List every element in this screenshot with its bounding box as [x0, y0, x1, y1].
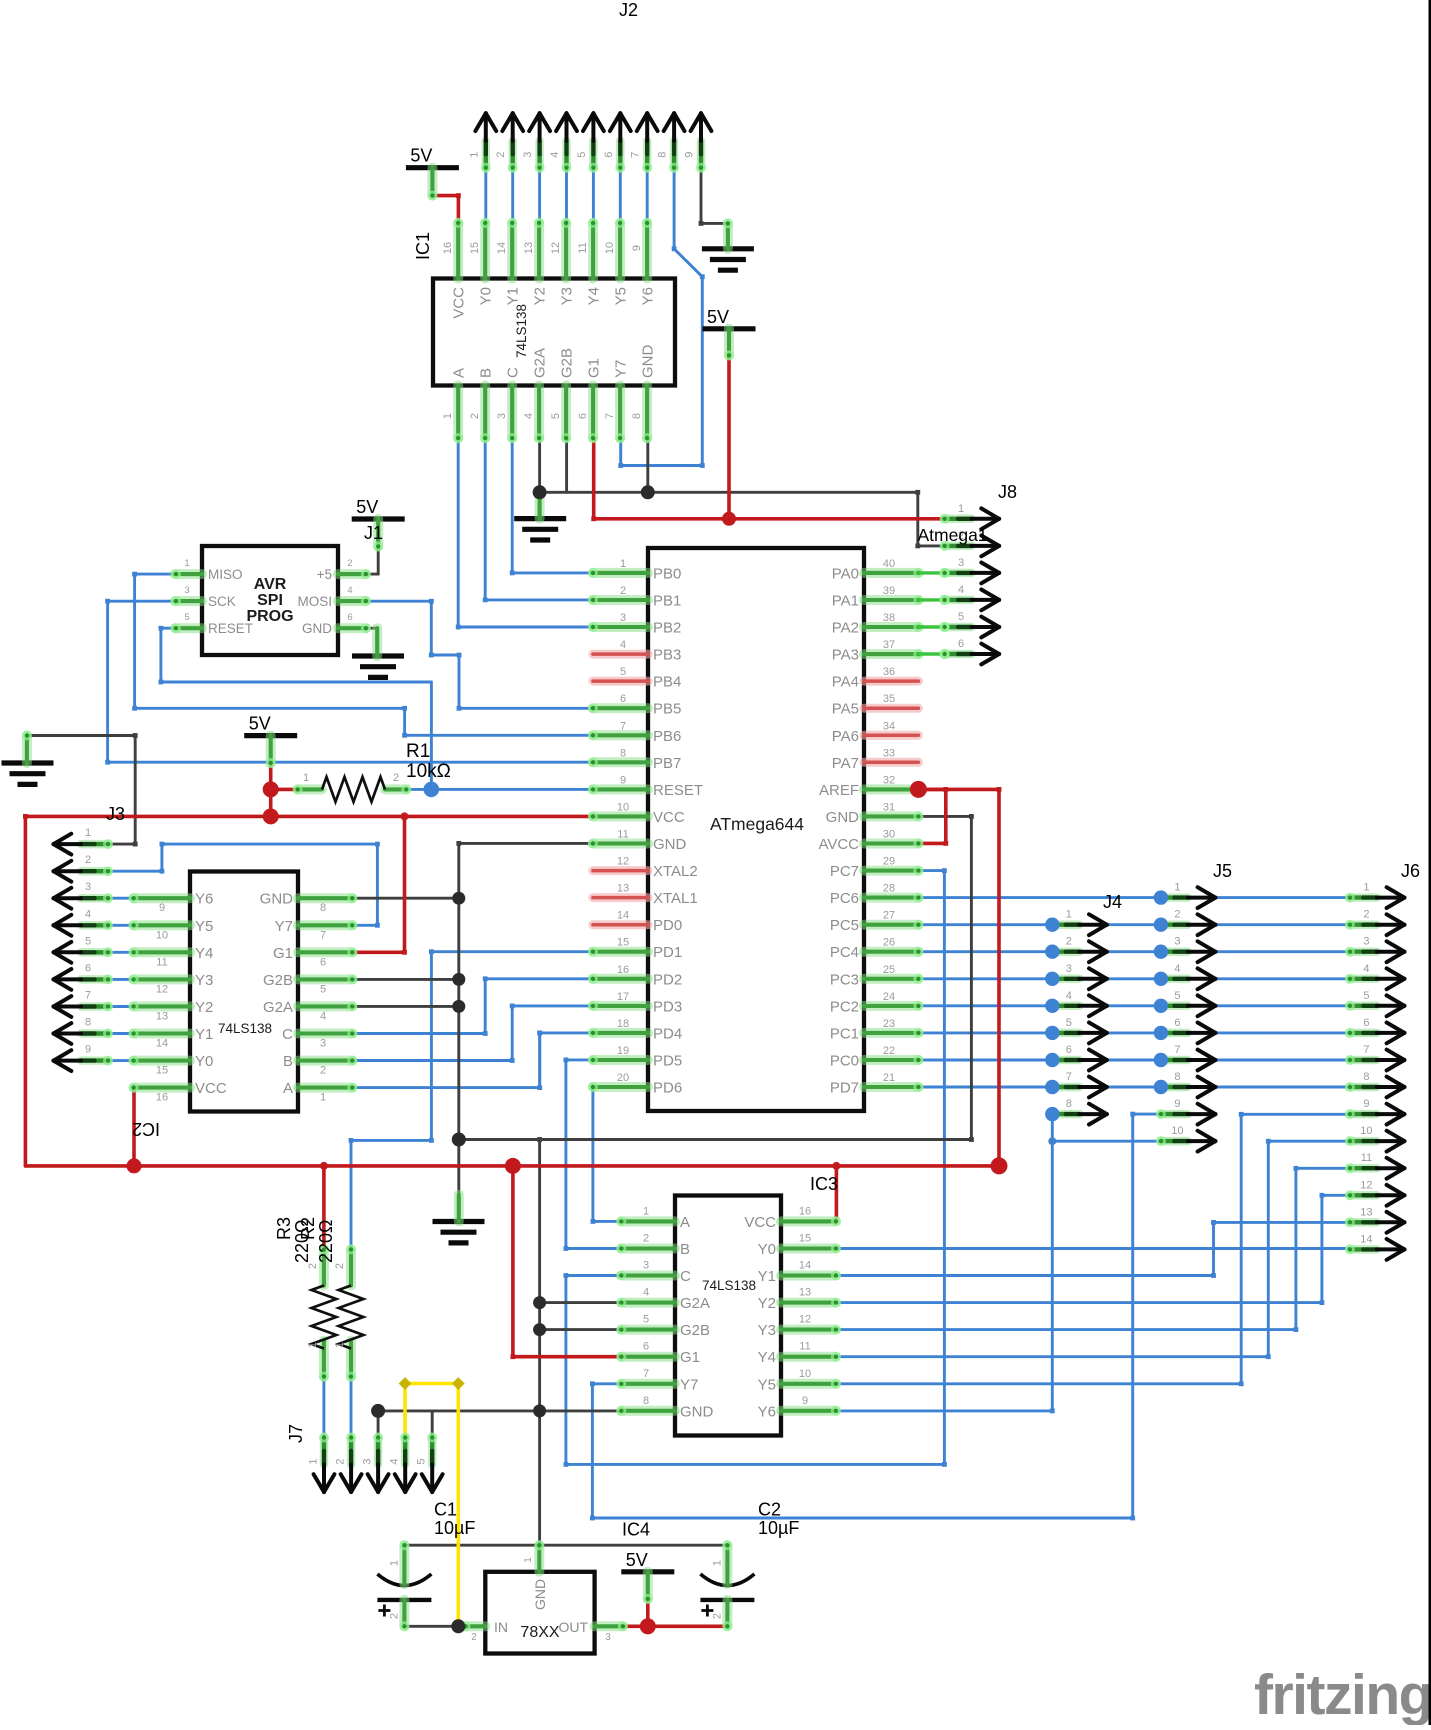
svg-text:3: 3 [1363, 936, 1369, 948]
svg-text:19: 19 [617, 1045, 629, 1057]
svg-text:Y0: Y0 [758, 1241, 776, 1258]
svg-text:6: 6 [958, 638, 964, 650]
svg-text:10: 10 [799, 1368, 811, 1380]
svg-text:33: 33 [883, 747, 895, 759]
svg-text:6: 6 [85, 962, 91, 974]
svg-text:G2B: G2B [680, 1322, 710, 1339]
svg-text:Y7: Y7 [275, 918, 293, 935]
svg-text:13: 13 [523, 242, 535, 254]
svg-text:VCC: VCC [653, 809, 685, 826]
svg-text:+5: +5 [317, 567, 332, 582]
svg-text:2: 2 [347, 558, 352, 569]
svg-text:Y5: Y5 [613, 287, 630, 305]
svg-text:1: 1 [307, 1342, 319, 1348]
svg-text:11: 11 [617, 829, 628, 841]
svg-text:G2A: G2A [263, 999, 293, 1016]
svg-text:12: 12 [1360, 1179, 1372, 1191]
svg-text:PROG: PROG [246, 608, 293, 625]
svg-text:13: 13 [156, 1010, 168, 1022]
svg-text:5: 5 [620, 666, 626, 678]
svg-text:11: 11 [156, 956, 167, 968]
svg-text:6: 6 [1363, 1017, 1369, 1029]
svg-text:1: 1 [523, 1557, 534, 1563]
svg-text:12: 12 [799, 1314, 811, 1326]
svg-text:3: 3 [620, 612, 626, 624]
svg-text:14: 14 [156, 1038, 168, 1050]
svg-text:5: 5 [1174, 990, 1180, 1002]
svg-text:Y2: Y2 [758, 1295, 776, 1312]
svg-text:10: 10 [1171, 1125, 1183, 1137]
svg-text:2: 2 [471, 1632, 477, 1643]
svg-text:2: 2 [1066, 936, 1072, 948]
svg-text:PD2: PD2 [653, 971, 682, 988]
svg-text:PC2: PC2 [830, 998, 859, 1015]
svg-text:9: 9 [159, 902, 165, 914]
svg-text:Y6: Y6 [195, 891, 213, 908]
svg-text:2: 2 [388, 1613, 400, 1619]
svg-text:6: 6 [577, 413, 589, 419]
svg-text:1: 1 [1174, 882, 1180, 894]
svg-text:7: 7 [620, 720, 626, 732]
svg-text:7: 7 [630, 152, 642, 158]
svg-text:5: 5 [958, 611, 964, 623]
svg-text:R3: R3 [274, 1217, 294, 1240]
svg-text:G1: G1 [273, 945, 293, 962]
svg-text:PB2: PB2 [653, 620, 681, 637]
svg-text:5: 5 [576, 152, 588, 158]
svg-text:16: 16 [799, 1205, 811, 1217]
svg-text:1: 1 [620, 558, 626, 570]
svg-text:PA0: PA0 [832, 565, 859, 582]
svg-text:VCC: VCC [195, 1080, 227, 1097]
svg-text:PD1: PD1 [653, 944, 682, 961]
svg-text:B: B [680, 1241, 690, 1258]
svg-text:7: 7 [1174, 1044, 1180, 1056]
svg-text:35: 35 [883, 693, 895, 705]
svg-text:Y5: Y5 [758, 1376, 776, 1393]
svg-text:Y6: Y6 [640, 287, 657, 305]
svg-text:MOSI: MOSI [297, 594, 332, 609]
svg-text:G1: G1 [680, 1349, 700, 1366]
svg-text:78XX: 78XX [520, 1624, 559, 1641]
svg-text:18: 18 [617, 1018, 629, 1030]
svg-text:13: 13 [617, 883, 629, 895]
svg-text:3: 3 [1174, 936, 1180, 948]
svg-text:25: 25 [883, 964, 895, 976]
svg-text:J5: J5 [1213, 861, 1232, 881]
svg-text:8: 8 [620, 747, 626, 759]
svg-text:PA3: PA3 [832, 647, 859, 664]
svg-text:IC3: IC3 [810, 1174, 838, 1194]
svg-text:9: 9 [684, 152, 696, 158]
svg-text:12: 12 [617, 856, 629, 868]
svg-text:PD6: PD6 [653, 1080, 682, 1097]
svg-text:29: 29 [883, 856, 895, 868]
svg-text:5: 5 [1363, 990, 1369, 1002]
svg-text:5: 5 [320, 983, 326, 995]
svg-text:PC4: PC4 [830, 944, 859, 961]
svg-text:1: 1 [468, 152, 480, 158]
svg-text:C2: C2 [758, 1500, 781, 1520]
svg-text:15: 15 [156, 1065, 168, 1077]
svg-text:RESET: RESET [653, 782, 703, 799]
svg-text:B: B [283, 1053, 293, 1070]
svg-text:J3: J3 [106, 804, 125, 824]
svg-text:2: 2 [643, 1233, 649, 1245]
svg-text:10: 10 [617, 801, 629, 813]
svg-text:3: 3 [1066, 963, 1072, 975]
svg-text:B: B [478, 368, 495, 378]
svg-text:21: 21 [883, 1072, 895, 1084]
svg-text:PB6: PB6 [653, 728, 681, 745]
svg-text:AREF: AREF [819, 782, 859, 799]
svg-text:PC6: PC6 [830, 890, 859, 907]
svg-text:3: 3 [320, 1038, 326, 1050]
svg-text:9: 9 [620, 774, 626, 786]
svg-text:Y4: Y4 [758, 1349, 776, 1366]
svg-text:5V: 5V [356, 497, 378, 517]
svg-text:2: 2 [620, 585, 626, 597]
svg-text:2: 2 [393, 772, 399, 784]
svg-text:Y4: Y4 [586, 287, 603, 305]
svg-text:1: 1 [1066, 909, 1072, 921]
svg-text:MISO: MISO [208, 567, 243, 582]
svg-text:2: 2 [1363, 909, 1369, 921]
svg-text:10: 10 [1360, 1125, 1372, 1137]
svg-text:3: 3 [362, 1458, 374, 1464]
svg-text:74LS138: 74LS138 [702, 1278, 756, 1293]
svg-text:5: 5 [416, 1458, 428, 1464]
svg-text:PA4: PA4 [832, 674, 859, 691]
svg-text:PB5: PB5 [653, 701, 681, 718]
svg-text:34: 34 [883, 720, 895, 732]
svg-text:G2A: G2A [532, 348, 549, 378]
svg-text:3: 3 [958, 557, 964, 569]
svg-text:6: 6 [347, 612, 352, 623]
svg-text:10µF: 10µF [434, 1518, 475, 1538]
svg-text:PD7: PD7 [830, 1080, 859, 1097]
svg-text:11: 11 [1361, 1152, 1372, 1164]
svg-text:10kΩ: 10kΩ [406, 761, 451, 782]
svg-text:Y2: Y2 [532, 287, 549, 305]
svg-text:9: 9 [631, 245, 643, 251]
svg-text:14: 14 [799, 1260, 811, 1272]
svg-text:26: 26 [883, 937, 895, 949]
svg-text:J6: J6 [1401, 861, 1420, 881]
svg-text:PA5: PA5 [832, 701, 859, 718]
svg-text:PA6: PA6 [832, 728, 859, 745]
svg-text:5V: 5V [707, 307, 729, 327]
svg-text:1: 1 [1363, 882, 1369, 894]
svg-text:2: 2 [1174, 909, 1180, 921]
svg-text:3: 3 [85, 881, 91, 893]
svg-text:4: 4 [320, 1010, 326, 1022]
svg-text:VCC: VCC [744, 1214, 776, 1231]
svg-text:40: 40 [883, 558, 895, 570]
svg-text:7: 7 [85, 990, 91, 1002]
svg-text:J8: J8 [998, 482, 1017, 502]
svg-text:Y7: Y7 [680, 1376, 698, 1393]
svg-text:6: 6 [1066, 1044, 1072, 1056]
svg-text:5V: 5V [249, 714, 271, 734]
svg-text:A: A [283, 1080, 293, 1097]
svg-text:10µF: 10µF [758, 1518, 799, 1538]
svg-text:4: 4 [1066, 990, 1072, 1002]
svg-text:8: 8 [320, 902, 326, 914]
svg-text:10: 10 [604, 242, 616, 254]
svg-text:PC7: PC7 [830, 863, 859, 880]
svg-text:A: A [680, 1214, 690, 1231]
svg-text:PD5: PD5 [653, 1053, 682, 1070]
svg-text:GND: GND [640, 345, 657, 379]
svg-text:IN: IN [494, 1619, 508, 1635]
svg-text:Y0: Y0 [478, 287, 495, 305]
svg-text:PC1: PC1 [830, 1025, 859, 1042]
svg-text:8: 8 [1174, 1071, 1180, 1083]
svg-text:Y7: Y7 [613, 360, 630, 378]
svg-text:16: 16 [156, 1092, 168, 1104]
svg-text:3: 3 [643, 1260, 649, 1272]
svg-text:1: 1 [388, 1560, 400, 1566]
svg-text:7: 7 [1363, 1044, 1369, 1056]
svg-text:10: 10 [156, 929, 168, 941]
svg-text:8: 8 [85, 1017, 91, 1029]
svg-text:4: 4 [643, 1287, 649, 1299]
svg-text:15: 15 [469, 242, 481, 254]
svg-text:9: 9 [802, 1395, 808, 1407]
svg-text:2: 2 [711, 1613, 723, 1619]
svg-text:C1: C1 [434, 1500, 457, 1520]
svg-text:17: 17 [617, 991, 629, 1003]
svg-text:PC3: PC3 [830, 971, 859, 988]
svg-text:GND: GND [532, 1579, 548, 1610]
svg-text:37: 37 [883, 639, 895, 651]
svg-text:12: 12 [156, 983, 168, 995]
svg-text:PB4: PB4 [653, 674, 681, 691]
svg-text:5: 5 [1066, 1017, 1072, 1029]
svg-text:11: 11 [577, 242, 589, 253]
svg-text:31: 31 [883, 801, 895, 813]
svg-text:fritzing: fritzing [1254, 1663, 1431, 1725]
svg-text:ATmega644: ATmega644 [710, 814, 804, 834]
svg-text:AVR: AVR [254, 576, 287, 593]
svg-text:5: 5 [184, 612, 189, 623]
svg-text:Y1: Y1 [758, 1268, 776, 1285]
svg-text:PA1: PA1 [832, 593, 859, 610]
svg-text:14: 14 [617, 910, 629, 922]
svg-text:22: 22 [883, 1045, 895, 1057]
svg-text:6: 6 [603, 152, 615, 158]
svg-text:8: 8 [1363, 1071, 1369, 1083]
svg-text:R2: R2 [298, 1217, 318, 1240]
svg-text:IC4: IC4 [622, 1520, 650, 1540]
svg-text:3: 3 [496, 413, 508, 419]
svg-text:Y1: Y1 [505, 287, 522, 305]
svg-text:1: 1 [643, 1205, 649, 1217]
svg-text:GND: GND [302, 621, 332, 636]
svg-text:Y2: Y2 [195, 999, 213, 1016]
svg-text:5: 5 [85, 935, 91, 947]
svg-text:8: 8 [657, 152, 669, 158]
svg-text:Atmega1: Atmega1 [918, 525, 988, 545]
svg-text:AVCC: AVCC [818, 836, 859, 853]
svg-text:11: 11 [799, 1341, 810, 1353]
svg-text:13: 13 [799, 1287, 811, 1299]
svg-text:PD3: PD3 [653, 998, 682, 1015]
svg-text:IC2: IC2 [132, 1119, 160, 1139]
svg-text:7: 7 [1066, 1071, 1072, 1083]
svg-text:7: 7 [320, 929, 326, 941]
svg-text:PD4: PD4 [653, 1025, 682, 1042]
svg-text:OUT: OUT [558, 1619, 588, 1635]
svg-text:28: 28 [883, 883, 895, 895]
svg-text:1: 1 [442, 413, 454, 419]
svg-text:SCK: SCK [208, 594, 236, 609]
svg-text:12: 12 [550, 242, 562, 254]
svg-text:GND: GND [653, 836, 687, 853]
svg-text:PD0: PD0 [653, 917, 682, 934]
svg-text:PA2: PA2 [832, 620, 859, 637]
svg-text:G1: G1 [586, 358, 603, 378]
svg-text:Y3: Y3 [195, 972, 213, 989]
svg-text:J2: J2 [619, 0, 638, 20]
svg-text:5: 5 [550, 413, 562, 419]
svg-text:PA7: PA7 [832, 755, 859, 772]
svg-text:6: 6 [1174, 1017, 1180, 1029]
svg-text:XTAL2: XTAL2 [653, 863, 698, 880]
svg-text:GND: GND [826, 809, 860, 826]
svg-text:4: 4 [620, 639, 626, 651]
svg-text:20: 20 [617, 1072, 629, 1084]
svg-text:PB7: PB7 [653, 755, 681, 772]
svg-text:C: C [505, 367, 522, 378]
svg-text:GND: GND [680, 1403, 714, 1420]
svg-text:G2B: G2B [263, 972, 293, 989]
svg-text:8: 8 [1066, 1098, 1072, 1110]
svg-text:14: 14 [1360, 1233, 1372, 1245]
svg-text:4: 4 [1174, 963, 1180, 975]
svg-text:GND: GND [260, 891, 294, 908]
svg-text:Y4: Y4 [195, 945, 213, 962]
svg-text:39: 39 [883, 585, 895, 597]
svg-text:Y6: Y6 [758, 1403, 776, 1420]
svg-text:15: 15 [799, 1233, 811, 1245]
svg-text:24: 24 [883, 991, 895, 1003]
svg-text:3: 3 [605, 1632, 611, 1643]
svg-text:2: 2 [495, 152, 507, 158]
svg-text:1: 1 [184, 558, 189, 569]
svg-text:16: 16 [442, 242, 454, 254]
svg-text:5V: 5V [626, 1550, 648, 1570]
svg-text:2: 2 [335, 1458, 347, 1464]
svg-text:6: 6 [620, 693, 626, 705]
svg-text:5: 5 [643, 1314, 649, 1326]
svg-text:Y0: Y0 [195, 1053, 213, 1070]
svg-text:C: C [282, 1026, 293, 1043]
svg-text:4: 4 [549, 152, 561, 158]
svg-text:7: 7 [643, 1368, 649, 1380]
svg-text:9: 9 [1363, 1098, 1369, 1110]
svg-text:4: 4 [523, 413, 535, 419]
svg-text:2: 2 [85, 854, 91, 866]
svg-text:VCC: VCC [451, 287, 468, 319]
svg-text:J4: J4 [1103, 892, 1122, 912]
svg-text:3: 3 [184, 585, 189, 596]
svg-text:2: 2 [469, 413, 481, 419]
svg-text:32: 32 [883, 774, 895, 786]
svg-text:1: 1 [711, 1560, 723, 1566]
svg-text:2: 2 [320, 1065, 326, 1077]
svg-text:3: 3 [522, 152, 534, 158]
svg-text:6: 6 [643, 1341, 649, 1353]
svg-text:14: 14 [496, 242, 508, 254]
svg-text:9: 9 [85, 1044, 91, 1056]
svg-text:15: 15 [617, 937, 629, 949]
svg-text:13: 13 [1360, 1206, 1372, 1218]
svg-text:J1: J1 [364, 523, 383, 543]
svg-text:A: A [451, 368, 468, 378]
svg-text:PC5: PC5 [830, 917, 859, 934]
svg-text:Y3: Y3 [559, 287, 576, 305]
svg-text:16: 16 [617, 964, 629, 976]
svg-text:5V: 5V [410, 146, 432, 166]
svg-text:1: 1 [303, 772, 309, 784]
svg-text:23: 23 [883, 1018, 895, 1030]
svg-text:36: 36 [883, 666, 895, 678]
svg-text:PB1: PB1 [653, 593, 681, 610]
svg-text:8: 8 [643, 1395, 649, 1407]
svg-text:1: 1 [958, 503, 964, 515]
svg-text:30: 30 [883, 829, 895, 841]
svg-text:R1: R1 [406, 741, 430, 762]
svg-text:6: 6 [320, 956, 326, 968]
svg-text:Y3: Y3 [758, 1322, 776, 1339]
svg-text:PB0: PB0 [653, 565, 681, 582]
svg-text:4: 4 [1363, 963, 1369, 975]
svg-text:Y1: Y1 [195, 1026, 213, 1043]
svg-text:C: C [680, 1268, 691, 1285]
svg-text:J7: J7 [286, 1424, 306, 1443]
svg-text:74LS138: 74LS138 [514, 304, 529, 358]
svg-text:G2B: G2B [559, 348, 576, 378]
svg-text:38: 38 [883, 612, 895, 624]
svg-text:74LS138: 74LS138 [218, 1021, 272, 1036]
svg-text:7: 7 [604, 413, 616, 419]
svg-text:1: 1 [308, 1458, 320, 1464]
svg-text:4: 4 [389, 1458, 401, 1464]
svg-text:1: 1 [334, 1342, 346, 1348]
svg-text:1: 1 [85, 827, 91, 839]
svg-text:9: 9 [1174, 1098, 1180, 1110]
svg-text:SPI: SPI [257, 592, 283, 609]
svg-text:4: 4 [347, 585, 352, 596]
svg-text:220Ω: 220Ω [316, 1220, 336, 1264]
svg-text:G2A: G2A [680, 1295, 710, 1312]
svg-text:4: 4 [958, 584, 964, 596]
svg-text:4: 4 [85, 908, 91, 920]
svg-text:Y5: Y5 [195, 918, 213, 935]
svg-text:27: 27 [883, 910, 895, 922]
svg-text:PC0: PC0 [830, 1053, 859, 1070]
svg-text:IC1: IC1 [413, 232, 433, 260]
svg-text:PB3: PB3 [653, 647, 681, 664]
svg-text:8: 8 [631, 413, 643, 419]
svg-text:1: 1 [320, 1092, 326, 1104]
svg-text:XTAL1: XTAL1 [653, 890, 698, 907]
